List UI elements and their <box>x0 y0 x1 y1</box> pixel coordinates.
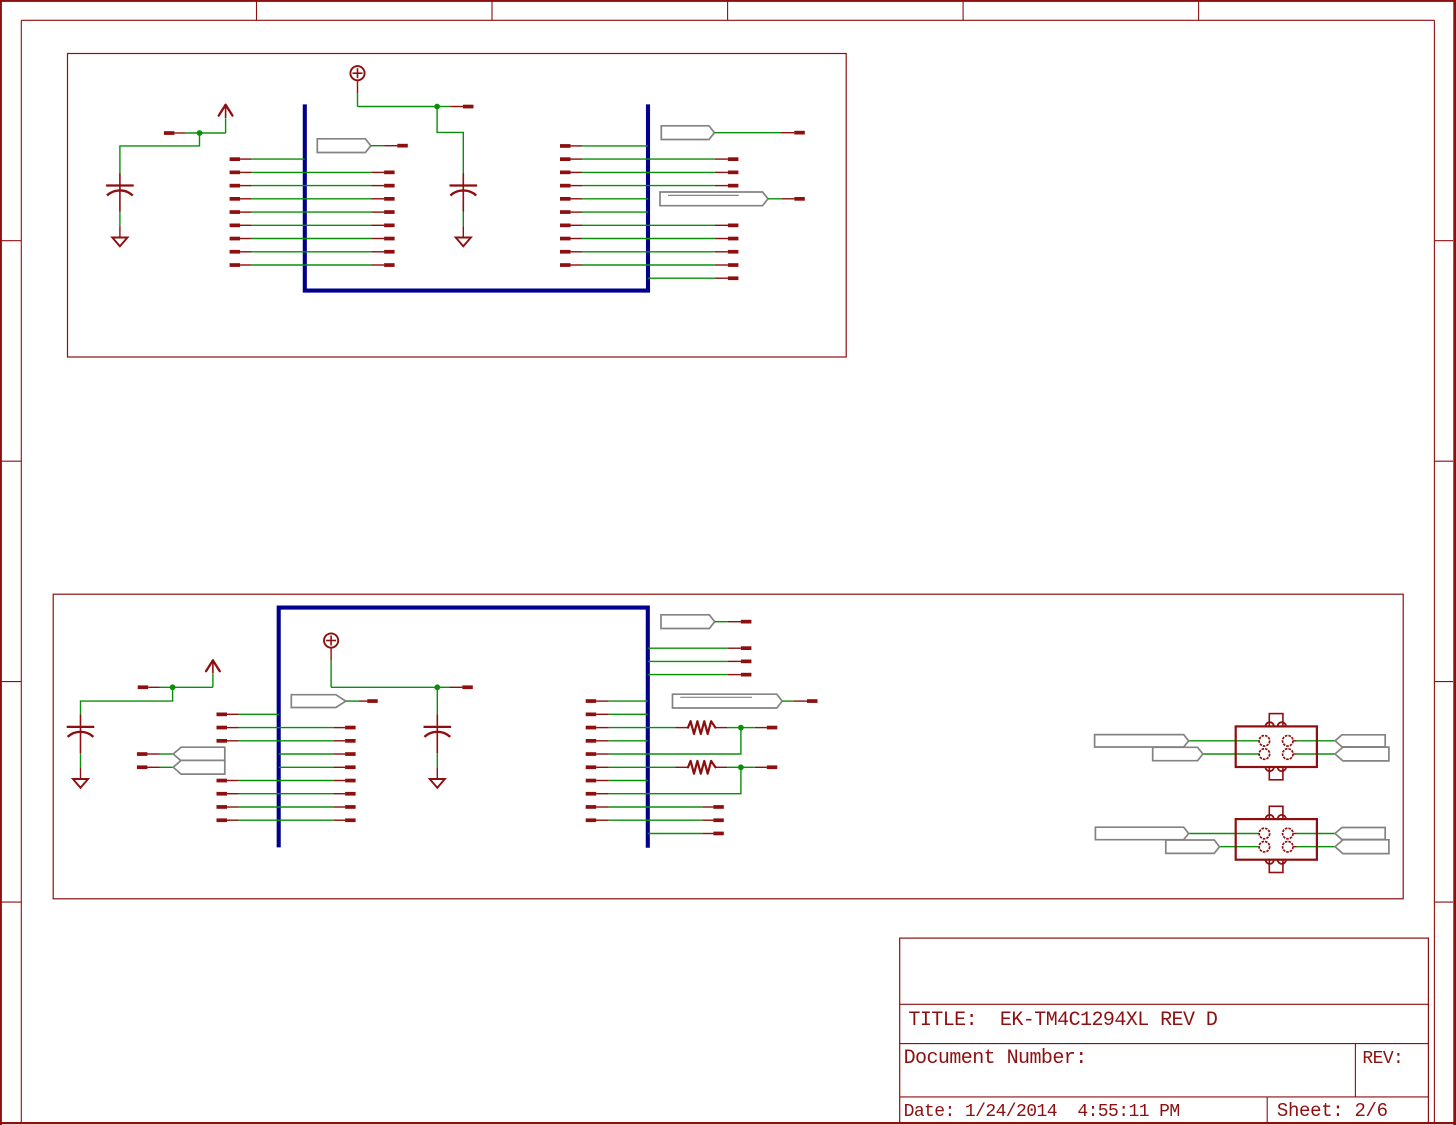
wire +5V horizontal box1 <box>358 106 438 108</box>
X2 left bus row 3 <box>217 739 228 743</box>
wire junction to C1 <box>120 133 200 173</box>
net flag B box2 left <box>137 765 148 769</box>
wire R1 to junction <box>727 727 741 729</box>
X1 right pin row 9 <box>560 263 571 267</box>
X2 right bus row -3 (right side only) <box>648 660 728 662</box>
title block Sheet divider <box>1266 1097 1268 1123</box>
ground symbol below C2 <box>456 238 471 247</box>
wire L-shaped row 7 to R2 junction <box>586 792 597 796</box>
X1 left pin row 1 (pad, pin, net wire) <box>230 157 241 161</box>
net flag JP2 left lower <box>1166 840 1220 853</box>
X1 left pin row 9 (pad, pin, net wire) <box>230 263 241 267</box>
X1 left pin row 6 (pad, pin, net wire) <box>230 224 241 228</box>
pad flag box1 left <box>397 144 408 148</box>
wire JP1 pin 2 to right flag <box>1297 740 1336 742</box>
power +5V circle symbol box1 <box>350 66 364 80</box>
frame top tick 4 <box>962 0 964 20</box>
wire to junction box1-left <box>186 132 226 134</box>
pad flag box2 top right <box>741 620 752 624</box>
box2 boundary rect <box>53 594 1403 899</box>
X2 right bus row -4 (right side only) <box>648 647 728 649</box>
frame outer border bottom <box>0 1122 1456 1124</box>
X2 left bus row 5 (right side only) <box>279 766 334 768</box>
wire flag box1 right upper <box>714 132 781 134</box>
wire C2 to ground <box>462 212 464 227</box>
X1 right pin row 7 <box>560 237 571 241</box>
pin stub +5V box2 <box>450 686 463 688</box>
X1 right pin row 2 <box>560 171 571 175</box>
ground pin C1 <box>119 226 121 237</box>
X2 left bus row 8 <box>217 805 228 809</box>
title block outline <box>900 938 1429 1123</box>
pin stub box2-left VCC <box>148 686 160 688</box>
box1 boundary rect <box>68 54 847 358</box>
pin stub flag box2 right <box>794 700 807 702</box>
capacitor C2 <box>462 173 464 184</box>
net flag label box2 middle <box>291 695 346 708</box>
pin stub flag box2 middle <box>359 700 367 702</box>
pad flag box1 right upper <box>794 131 805 135</box>
frame inner border left <box>20 20 22 1123</box>
frame right tick 4 <box>1434 901 1453 903</box>
ground pin C3 <box>80 768 82 779</box>
capacitor C1 <box>119 173 121 184</box>
jumper JP2 pin circles and stubs <box>1259 828 1270 839</box>
pad box2-left VCC <box>138 685 149 689</box>
pin stub box1-left VCC <box>174 132 185 134</box>
net flag JP2 right upper <box>1335 828 1385 840</box>
wire left flag to JP1 pin 1 <box>1189 740 1260 742</box>
junction box1-left <box>197 130 203 136</box>
pin stub flag box1 right upper <box>781 132 794 134</box>
wire left flag to JP2 pin 1 <box>1189 833 1260 835</box>
pin stub flag box1 left <box>385 145 398 147</box>
frame left tick 4 <box>0 901 21 903</box>
wire flag box2 right <box>782 700 794 702</box>
capacitor C3 <box>80 715 82 726</box>
X2 right bus row 1 (left side only) <box>586 713 597 717</box>
frame left tick 2 <box>0 460 21 462</box>
X1 left pin row 4 (pad, pin, net wire) <box>230 197 241 201</box>
pin stub R2 output <box>755 766 767 768</box>
frame top tick 5 <box>1198 0 1200 20</box>
wire left flag to JP1 pin 3 <box>1203 753 1259 755</box>
X2 right bus row 10 (right side only) <box>648 833 703 835</box>
X2 left bus row 1 <box>217 713 228 717</box>
X2 right bus row 0 (left side only) <box>586 699 597 703</box>
jumper JP1 pin circles and stubs <box>1259 736 1270 747</box>
resistor R2 <box>676 766 689 768</box>
wire flag box2 top right <box>715 621 728 623</box>
wire flag box1 left <box>371 145 385 147</box>
title block line above Date row <box>900 1096 1429 1098</box>
X2 left bus row 7 <box>217 792 228 796</box>
frame inner border right <box>1433 20 1435 1123</box>
wire +5V down box1 <box>357 93 359 106</box>
net flag JP1 left upper <box>1095 735 1189 747</box>
X1 left pin row 2 (pad, pin, net wire) <box>230 171 241 175</box>
supply arrow symbol (VCC) box2 <box>206 660 213 671</box>
frame top tick 1 <box>256 0 258 20</box>
svg-text:REV:: REV: <box>1362 1049 1403 1069</box>
X2 right bus row 9 <box>586 818 597 822</box>
wire to junction box2-left <box>160 686 213 688</box>
X1 left pin row 5 (pad, pin, net wire) <box>230 210 241 214</box>
wire junction to C2 <box>437 107 463 174</box>
junction +5V box2 <box>434 684 440 690</box>
svg-text:Date: 1/24/2014 4:55:11 PM: Date: 1/24/2014 4:55:11 PM <box>904 1102 1180 1122</box>
junction R2 output <box>738 764 744 770</box>
X2 left bus row 4 (right side only) <box>279 753 334 755</box>
X1 left pin row 3 (pad, pin, net wire) <box>230 184 241 188</box>
X1 right pin row 1 <box>560 157 571 161</box>
frame top tick 2 <box>491 0 493 20</box>
jumper JP2 body with tabs <box>1236 819 1317 860</box>
X1 left pin row 7 (pad, pin, net wire) <box>230 237 241 241</box>
ground pin C2 <box>462 226 464 237</box>
X2 right bus row 2 wire into R1 <box>586 726 597 730</box>
wire junction R2 to pad <box>741 766 755 768</box>
X1 right pin row 10 <box>648 277 715 279</box>
pad box1-left VCC <box>164 131 175 135</box>
X1 left pin row 8 (pad, pin, net wire) <box>230 250 241 254</box>
X2 left bus row 2 <box>217 726 228 730</box>
pad R2 output <box>767 765 778 769</box>
pin below +5V circle box1 <box>357 80 359 93</box>
pin below +5V circle box2 <box>330 647 332 660</box>
wire junction to C4 <box>436 687 438 714</box>
wire junction to C3 <box>81 687 173 714</box>
wire junction to pin box2 <box>437 686 449 688</box>
X2 right bus row 3 (left side only) <box>586 739 597 743</box>
frame top tick 3 <box>727 0 729 20</box>
pad flag box2 right <box>807 699 818 703</box>
wire R2 to junction <box>727 766 741 768</box>
X2 right bus row -2 (right side only) <box>648 674 728 676</box>
svg-text:Sheet: 2/6: Sheet: 2/6 <box>1277 1100 1388 1122</box>
wire JP2 pin 4 to right flag <box>1297 846 1336 848</box>
net flag A box2 left <box>137 752 148 756</box>
wire C1 to ground <box>119 212 121 227</box>
bus X1 (BoosterPack connector 1, U shape) <box>305 104 648 290</box>
frame left tick 1 <box>0 240 21 242</box>
wire from VCC arrow box2 <box>212 674 214 687</box>
pad flag box1 right lower <box>794 197 805 201</box>
X2 left bus row 9 <box>217 818 228 822</box>
power +5V circle symbol box2 <box>324 633 338 647</box>
pad flag box2 middle <box>367 699 378 703</box>
frame inner border top <box>21 19 1434 21</box>
X2 right bus row 6 (left side only) <box>586 779 597 783</box>
jumper JP1 body with tabs <box>1236 726 1317 767</box>
net flag label box2 right (with overbar) <box>673 694 783 708</box>
title block line above TITLE row <box>900 1003 1429 1005</box>
net flag JP1 right lower <box>1335 747 1389 761</box>
ground symbol below C4 <box>430 779 445 788</box>
frame outer border top <box>0 0 1456 2</box>
net flag JP1 right upper <box>1335 735 1385 747</box>
X2 left bus row 6 <box>217 779 228 783</box>
net flag JP1 left lower <box>1153 747 1203 760</box>
wire flag box1 right lower <box>768 198 781 200</box>
wire junction R1 to pad <box>741 727 755 729</box>
wire +5V horizontal box2 <box>331 686 437 688</box>
ground pin C4 <box>436 768 438 779</box>
ground symbol below C1 <box>112 238 127 247</box>
supply arrow symbol (VCC) box1 <box>219 105 226 116</box>
resistor R1 <box>676 727 689 729</box>
net flag JP2 right lower <box>1335 840 1389 854</box>
wire JP1 pin 4 to right flag <box>1297 753 1336 755</box>
capacitor C4 <box>436 715 438 726</box>
X1 right pin row 3 <box>560 184 571 188</box>
X1 right pin row 5 <box>560 210 571 214</box>
junction R1 output <box>738 725 744 731</box>
wire junction to pin box1 <box>437 106 450 108</box>
bus X2 (BoosterPack connector 2, n shape) <box>279 608 648 848</box>
net flag label box1 right upper <box>661 126 714 140</box>
net flag JP2 left upper <box>1095 827 1188 840</box>
pin stub flag box1 right lower <box>781 198 794 200</box>
net flag label box2 top right <box>661 615 715 629</box>
pin stub +5V box1 <box>450 106 463 108</box>
net flag label box1 right lower (with overbar) <box>660 192 768 206</box>
frame outer border right <box>1453 0 1456 1125</box>
frame right tick 1 <box>1434 240 1453 242</box>
pad +5V box1 <box>463 105 474 109</box>
frame left tick 3 <box>0 681 21 683</box>
frame right tick 2 <box>1434 460 1453 462</box>
pin stub R1 output <box>755 727 767 729</box>
title block REV divider <box>1354 1044 1356 1097</box>
wire from VCC arrow <box>225 118 227 133</box>
title block line below TITLE row <box>900 1043 1429 1045</box>
X1 right pin row 0 <box>560 144 571 148</box>
wire C3 to ground <box>80 753 82 768</box>
wire L-shaped row 4 to R1 junction <box>586 752 597 756</box>
junction +5V box1 <box>434 104 440 110</box>
pad R1 output <box>767 726 778 730</box>
net flag label box1 left <box>317 139 371 153</box>
frame right tick 3 <box>1434 681 1453 683</box>
pin stub flag box2 top right <box>728 621 741 623</box>
pad +5V box2 <box>462 685 473 689</box>
wire flag box2 middle <box>346 700 359 702</box>
wire +5V down box2 <box>330 661 332 688</box>
ground symbol below C3 <box>73 779 88 788</box>
wire JP2 pin 2 to right flag <box>1297 833 1336 835</box>
svg-text:Document Number:: Document Number: <box>904 1047 1087 1070</box>
svg-text:TITLE: EK-TM4C1294XL REV D: TITLE: EK-TM4C1294XL REV D <box>908 1009 1217 1032</box>
X2 right bus row 5 wire into R2 <box>586 765 597 769</box>
X1 right pin row 6 <box>560 224 571 228</box>
X1 right pin row 4 <box>560 197 571 201</box>
frame outer border left <box>0 0 2 1125</box>
X2 right bus row 8 <box>586 805 597 809</box>
wire left flag to JP2 pin 3 <box>1220 846 1260 848</box>
junction box2-left <box>170 684 176 690</box>
wire C4 to ground <box>436 753 438 768</box>
X1 right pin row 8 <box>560 250 571 254</box>
